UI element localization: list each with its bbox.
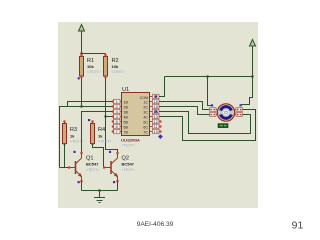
svg-text:2B: 2B: [124, 105, 129, 109]
svg-text:1C: 1C: [143, 100, 148, 104]
svg-text:3B: 3B: [124, 110, 129, 114]
motor right pin boxes: [236, 108, 243, 112]
junction R2 on 4B line: [104, 115, 106, 117]
svg-text:R4: R4: [98, 127, 105, 133]
wire Q1 emitter down: [81, 181, 83, 191]
svg-text:BC547: BC547: [86, 162, 99, 167]
svg-text:16: 16: [154, 100, 158, 104]
blue diamond marker U1: [158, 134, 163, 139]
svg-text:5C: 5C: [143, 120, 148, 124]
wire 3B line from Q1 collector: [82, 112, 115, 154]
motor value label box: [218, 124, 228, 128]
resistor R4: [88, 119, 111, 145]
svg-text:<TEXT>: <TEXT>: [87, 70, 100, 74]
motor common pins blue: [211, 104, 213, 106]
ground symbol: [94, 191, 105, 203]
svg-text:<TEXT>: <TEXT>: [122, 168, 135, 172]
motor left pin boxes: [210, 108, 217, 112]
svg-text:10k: 10k: [112, 64, 119, 69]
svg-text:2: 2: [116, 105, 118, 109]
svg-text:<TEXT>: <TEXT>: [70, 140, 83, 144]
wire 4B to Q2 collector: [106, 117, 118, 154]
junction R1 on 2B line: [80, 105, 82, 107]
U1 left pin numbers: [116, 100, 118, 134]
svg-text:<TEXT>: <TEXT>: [122, 144, 135, 148]
svg-text:3: 3: [116, 110, 118, 114]
motor pin stubs: [216, 110, 236, 115]
wire R1 bottom to 2B line: [81, 78, 83, 107]
svg-text:15: 15: [154, 105, 158, 109]
wire emitter ground rail: [82, 190, 118, 192]
junction ground: [98, 189, 100, 191]
svg-text:11: 11: [154, 125, 158, 129]
wire vcc1 rail to R2: [82, 53, 106, 55]
wire vcc1 riser: [81, 31, 83, 54]
wire COM to top rail: [159, 77, 165, 97]
svg-text:6C: 6C: [143, 125, 148, 129]
svg-text:6B: 6B: [124, 125, 129, 129]
pin 9 and 14 navy fill: [154, 95, 157, 97]
transistor Q1 BC547: [69, 153, 82, 181]
wire vcc2 riser: [252, 46, 254, 77]
Q2 origin blue: [109, 151, 111, 153]
svg-text:7: 7: [116, 130, 118, 134]
wire 4C loop to motor upper-right pin: [159, 110, 256, 141]
svg-text:13: 13: [154, 115, 158, 119]
svg-text:4B: 4B: [124, 115, 129, 119]
svg-text:1: 1: [116, 100, 118, 104]
U1 right pin stubs: [150, 97, 160, 132]
stepper motor M1: [210, 104, 243, 128]
motor pin marks red: [211, 109, 239, 116]
U1 right pin boxes: [153, 94, 160, 133]
svg-text:10: 10: [154, 130, 158, 134]
resistor R1: [78, 54, 101, 80]
wire 4B line: [106, 116, 115, 118]
transistor Q2 BC547: [104, 153, 118, 181]
resistor R3: [63, 120, 84, 145]
wire rail drop to motor right common: [241, 77, 253, 105]
U1 left pin boxes: [114, 99, 121, 133]
junction at R1 top: [80, 52, 82, 54]
svg-text:10k: 10k: [87, 64, 94, 69]
svg-text:4C: 4C: [143, 115, 148, 119]
Q1 origin blue: [73, 151, 75, 153]
wire rail drop to motor left common: [208, 77, 212, 106]
wire 1B line with step: [68, 102, 115, 107]
svg-text:1B: 1B: [124, 100, 129, 104]
svg-text:<TEXT>: <TEXT>: [112, 70, 125, 74]
junction rail right corner: [251, 75, 253, 77]
power symbol VCC left: [79, 25, 85, 32]
svg-text:1k: 1k: [98, 134, 103, 139]
wire 1C to motor upper-left pin: [159, 102, 210, 110]
svg-text:6: 6: [116, 125, 118, 129]
IC U1 ULN2003A: [121, 87, 150, 148]
svg-text:7C: 7C: [143, 130, 148, 134]
wire R3 bottom to Q1 base: [64, 144, 66, 168]
U1 left pin end marks: [112, 100, 114, 132]
U1 right unconnected pin marks: [159, 120, 161, 132]
svg-text:7B: 7B: [124, 130, 129, 134]
wire Q1 base lead: [60, 167, 70, 169]
svg-text:12: 12: [154, 120, 158, 124]
U1 left pin stubs: [113, 102, 122, 132]
wire 2B line: [60, 107, 115, 168]
svg-text:1k: 1k: [70, 134, 75, 139]
svg-text:BC547: BC547: [122, 162, 135, 167]
svg-text:4: 4: [116, 115, 118, 119]
wire 2C to motor lower-left pin: [159, 107, 210, 115]
resistor R2: [104, 54, 125, 80]
svg-text:2C: 2C: [143, 105, 148, 109]
junction rail drop left: [206, 75, 208, 77]
wire Q2 emitter down: [117, 181, 119, 191]
schematic canvas: [58, 22, 258, 208]
svg-text:9AEI-406.39: 9AEI-406.39: [137, 221, 174, 228]
svg-text:ULN2003A: ULN2003A: [121, 137, 140, 142]
svg-text:5B: 5B: [124, 120, 129, 124]
power symbol VCC right: [250, 40, 256, 47]
wire R2 bottom to 4B: [105, 78, 107, 117]
U1 right pin numbers: [154, 95, 159, 134]
svg-text:3C: 3C: [143, 110, 148, 114]
svg-text:<TEXT>: <TEXT>: [86, 168, 99, 172]
svg-text:5: 5: [116, 120, 118, 124]
svg-text:91: 91: [292, 220, 304, 232]
svg-text:R3: R3: [70, 127, 77, 133]
wire 3C loop to motor lower-right pin: [159, 112, 251, 134]
svg-text:<TEXT>: <TEXT>: [98, 140, 111, 144]
wire top rail: [165, 76, 253, 78]
wire R4 bottom to Q2 base: [93, 144, 104, 168]
